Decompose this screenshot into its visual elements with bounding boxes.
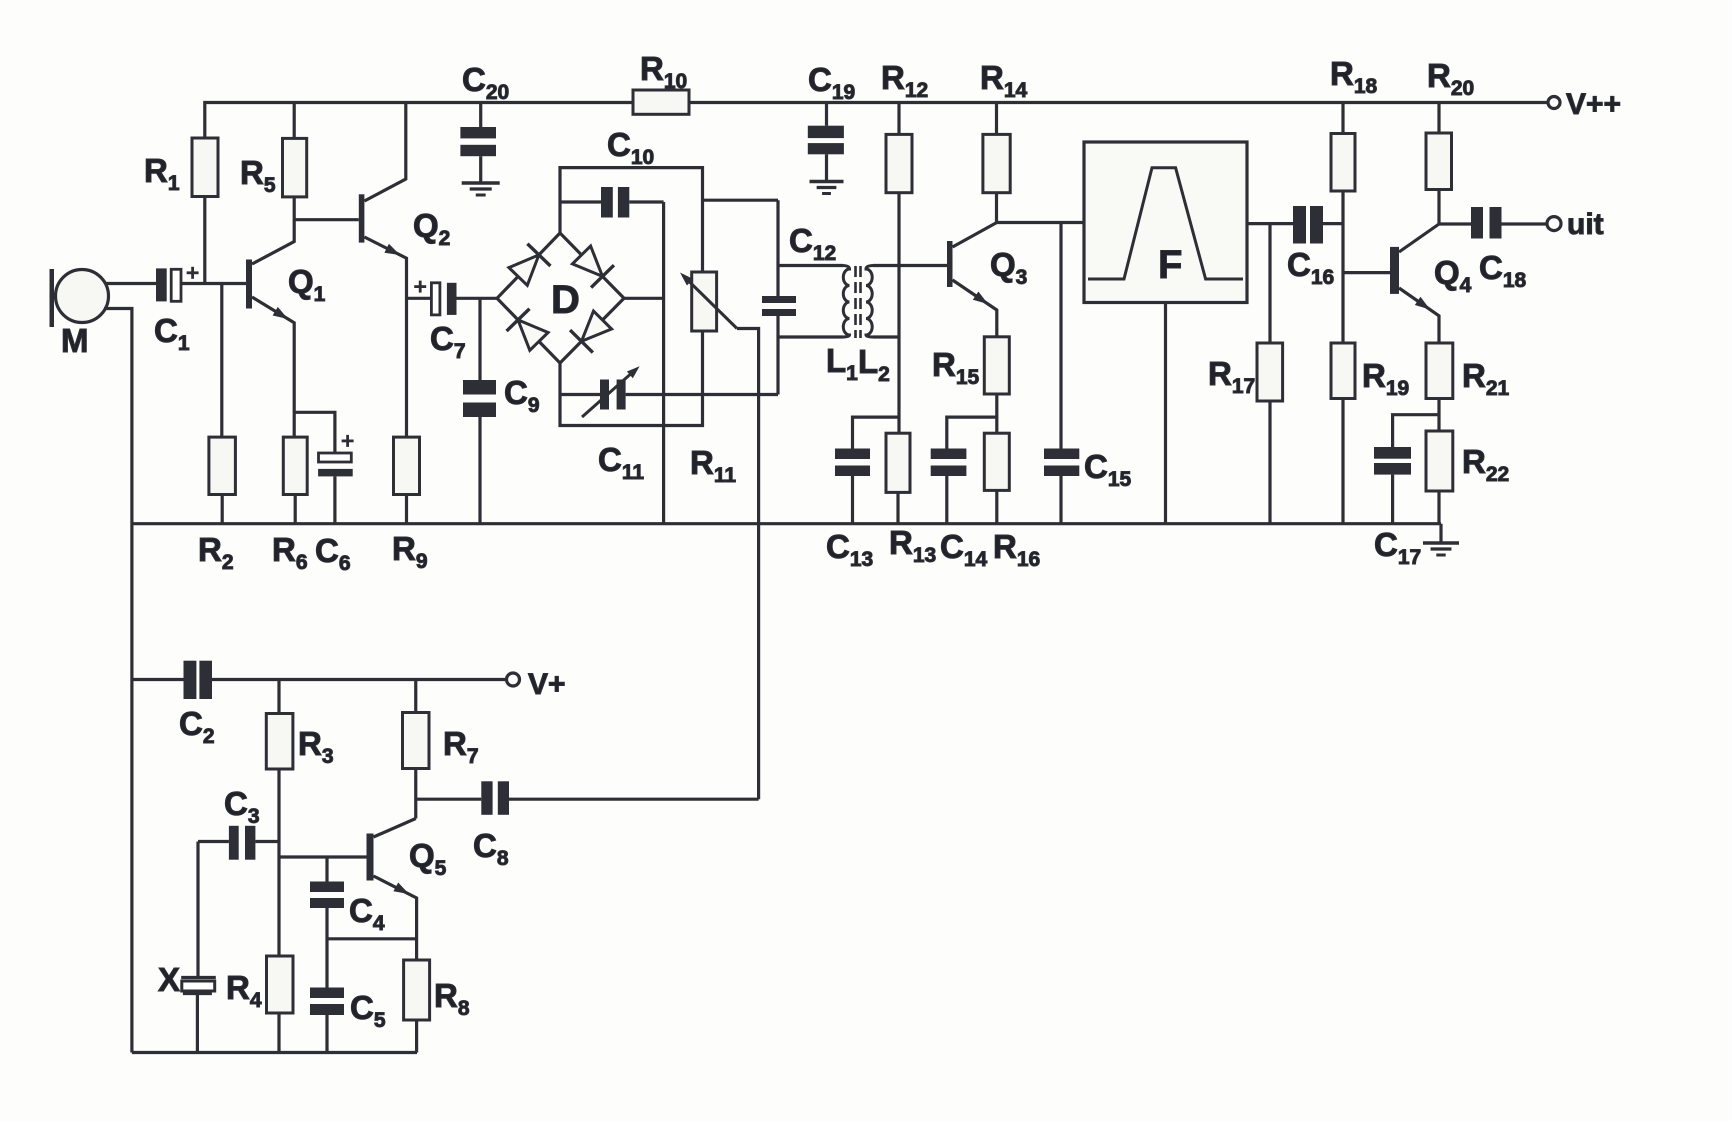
label L1 — [826, 342, 858, 385]
label C13 — [826, 528, 873, 571]
label L2 — [858, 343, 890, 386]
capacitor C1 — [156, 267, 199, 302]
transistor Q2 — [294, 103, 406, 438]
capacitor C17 — [1374, 415, 1439, 524]
label R14 — [980, 59, 1028, 102]
resistor R3 — [266, 680, 293, 957]
wire — [1247, 222, 1293, 225]
label R19 — [1362, 357, 1409, 400]
label C15 — [1084, 448, 1132, 491]
label R20 — [1427, 57, 1474, 100]
capacitor C3 — [198, 826, 279, 860]
label R6 — [272, 531, 308, 574]
transistor Q5 — [279, 819, 417, 961]
resistor R17 — [1257, 224, 1283, 524]
wire — [624, 297, 664, 300]
label C20 — [462, 61, 509, 104]
crystal X — [181, 842, 216, 1053]
transformer core — [856, 266, 861, 338]
label R13 — [889, 524, 936, 567]
diode bridge D outline — [497, 233, 624, 363]
terminal V++ — [1548, 97, 1560, 109]
resistor R13 — [886, 433, 910, 524]
label R21 — [1462, 357, 1510, 400]
label C14 — [940, 528, 988, 571]
diode D-topright — [572, 246, 614, 288]
label X — [158, 961, 180, 998]
label R11 — [690, 444, 736, 487]
resistor R6 — [283, 437, 307, 524]
label R18 — [1330, 55, 1378, 98]
capacitor C18 — [1439, 207, 1547, 239]
capacitor C20 — [460, 103, 496, 184]
resistor R22 — [1426, 431, 1453, 524]
label C3 — [224, 785, 260, 828]
inductor L1 — [778, 266, 850, 338]
label F — [1158, 243, 1182, 287]
capacitor C15 — [1044, 223, 1079, 524]
label C11 — [598, 441, 644, 484]
transistor Q3 — [947, 223, 997, 337]
svg-text:D: D — [551, 278, 580, 322]
capacitor C5 — [310, 988, 344, 1053]
wire — [776, 200, 779, 296]
label Q5 — [409, 837, 447, 880]
label C7 — [430, 320, 466, 363]
resistor R10 — [633, 90, 689, 114]
wire — [897, 193, 900, 434]
capacitor C8 — [416, 781, 759, 815]
resistor R4 — [267, 956, 294, 1053]
label R10 — [640, 50, 687, 93]
svg-text:V+: V+ — [528, 668, 566, 701]
wire — [1341, 191, 1344, 343]
label C5 — [350, 989, 386, 1032]
diode D-bottomright — [570, 311, 612, 353]
wire — [560, 168, 703, 272]
diode D-topleft — [509, 244, 551, 286]
capacitor C2 — [132, 661, 507, 699]
capacitor C19 — [808, 103, 844, 182]
label R16 — [993, 528, 1040, 571]
label C16 — [1287, 246, 1334, 289]
capacitor C9 — [463, 298, 496, 523]
wire — [997, 221, 1084, 224]
label R22 — [1462, 443, 1509, 486]
capacitor C16 — [1293, 206, 1343, 244]
svg-text:M: M — [61, 322, 89, 359]
terminal uit — [1547, 217, 1561, 231]
ground — [810, 182, 844, 194]
wire — [560, 331, 703, 426]
label R1 — [144, 152, 180, 195]
capacitor C7 — [407, 281, 498, 315]
label Q2 — [413, 207, 450, 250]
capacitor C4 — [310, 858, 344, 988]
transistor Q1 — [246, 197, 294, 437]
label Q3 — [990, 246, 1027, 289]
capacitor C14 — [931, 417, 997, 524]
terminal V+ — [507, 673, 520, 686]
microphone M — [50, 269, 109, 327]
capacitor C6 — [294, 412, 353, 523]
resistor R9 — [394, 437, 420, 524]
inductor L2 — [866, 266, 947, 338]
wire — [132, 1051, 417, 1054]
resistor R1 — [192, 138, 218, 284]
label C8 — [473, 827, 509, 870]
label R9 — [392, 530, 428, 573]
resistor R11 — [680, 272, 759, 799]
wire — [327, 937, 417, 940]
resistor R5 — [283, 103, 307, 197]
label C12 — [789, 222, 836, 265]
wire — [1164, 303, 1167, 524]
label R12 — [881, 59, 928, 102]
label C4 — [349, 892, 385, 935]
label R8 — [434, 977, 470, 1020]
wire — [776, 337, 779, 395]
wire — [703, 199, 779, 202]
resistor R21 — [1426, 343, 1453, 431]
ground — [462, 183, 500, 195]
svg-text:X: X — [158, 961, 180, 998]
filter F — [1084, 142, 1247, 303]
resistor R15 — [984, 337, 1009, 433]
label Q4 — [1434, 254, 1472, 297]
wire — [662, 202, 665, 524]
label R15 — [932, 346, 980, 389]
resistor R16 — [984, 433, 1009, 524]
label M — [61, 322, 89, 359]
label D — [551, 278, 580, 322]
label C1 — [154, 312, 190, 355]
svg-text:V++: V++ — [1566, 88, 1621, 121]
wire — [1343, 271, 1390, 274]
resistor R8 — [404, 960, 430, 1053]
label C6 — [315, 532, 351, 575]
wire — [181, 282, 246, 285]
label C10 — [607, 126, 654, 169]
capacitor C10 — [560, 187, 664, 218]
label R2 — [198, 531, 234, 574]
ground — [1423, 524, 1459, 555]
label R4 — [226, 969, 262, 1012]
label V++ — [1566, 88, 1621, 121]
resistor R18 — [1331, 103, 1355, 192]
label R3 — [298, 725, 334, 768]
resistor R20 — [1426, 103, 1452, 225]
resistor R2 — [209, 284, 236, 524]
svg-text:F: F — [1158, 243, 1182, 287]
diode D-bottomleft — [507, 309, 549, 351]
label C17 — [1374, 526, 1421, 569]
resistor R12 — [886, 103, 912, 193]
label V+ — [528, 668, 566, 701]
wire — [105, 282, 156, 285]
label R7 — [443, 725, 479, 768]
label C2 — [179, 705, 215, 748]
wire — [205, 103, 633, 139]
resistor R14 — [983, 103, 1010, 223]
wire — [132, 522, 1441, 525]
label C19 — [808, 61, 855, 104]
capacitor C13 — [835, 417, 899, 524]
label uit — [1567, 208, 1604, 241]
capacitor C11 — [560, 366, 778, 417]
label C18 — [1479, 249, 1527, 292]
wire — [104, 309, 132, 1053]
transistor Q4 — [1390, 224, 1439, 343]
label R5 — [240, 154, 276, 197]
svg-text:uit: uit — [1567, 208, 1604, 241]
resistor R19 — [1331, 343, 1355, 524]
wire — [689, 101, 1548, 104]
label R17 — [1208, 355, 1255, 398]
label C9 — [504, 374, 540, 417]
capacitor C12 — [762, 296, 796, 337]
resistor R7 — [403, 680, 430, 819]
label Q1 — [288, 263, 326, 306]
